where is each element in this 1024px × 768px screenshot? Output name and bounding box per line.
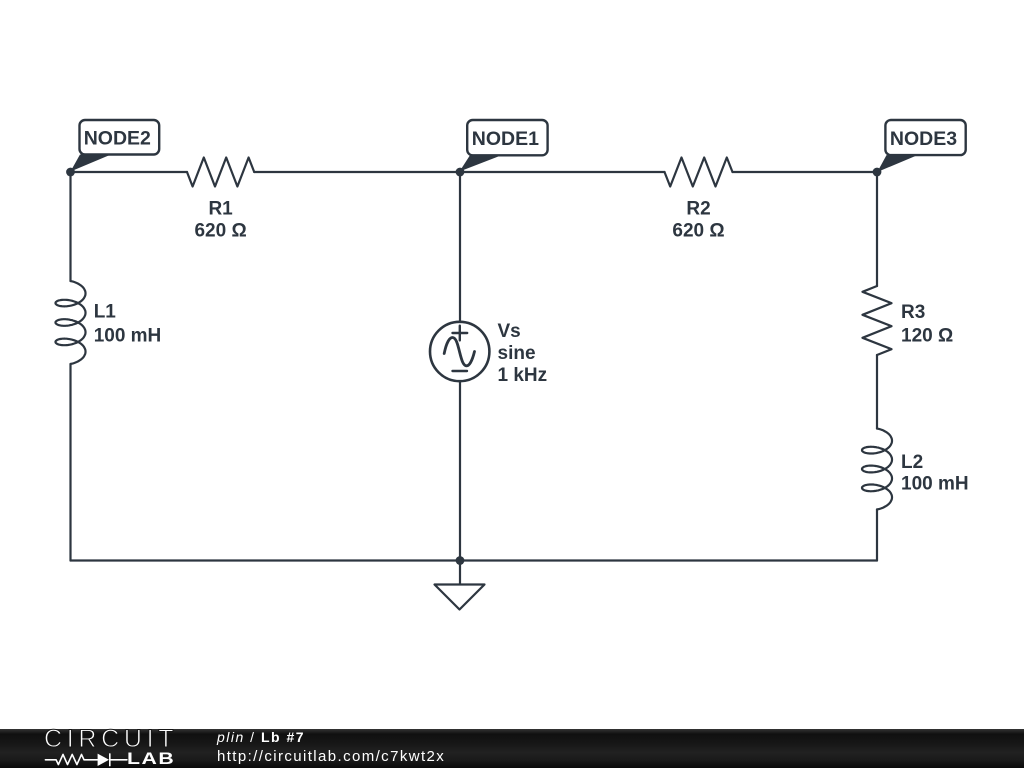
svg-text:R1: R1 bbox=[208, 199, 233, 220]
svg-text:NODE1: NODE1 bbox=[472, 128, 539, 150]
svg-text:620 Ω: 620 Ω bbox=[194, 221, 246, 242]
svg-text:1 kHz: 1 kHz bbox=[498, 365, 548, 386]
svg-text:620 Ω: 620 Ω bbox=[672, 221, 724, 242]
svg-text:R2: R2 bbox=[686, 199, 710, 220]
svg-text:100 mH: 100 mH bbox=[901, 474, 969, 495]
svg-text:Vs: Vs bbox=[498, 321, 521, 342]
svg-text:NODE3: NODE3 bbox=[890, 128, 957, 150]
svg-text:NODE2: NODE2 bbox=[84, 128, 151, 150]
svg-text:100 mH: 100 mH bbox=[94, 325, 162, 346]
svg-text:L2: L2 bbox=[901, 452, 923, 473]
svg-text:L1: L1 bbox=[94, 302, 117, 323]
svg-text:R3: R3 bbox=[901, 302, 925, 323]
svg-text:120 Ω: 120 Ω bbox=[901, 326, 953, 347]
svg-text:sine: sine bbox=[498, 343, 536, 364]
